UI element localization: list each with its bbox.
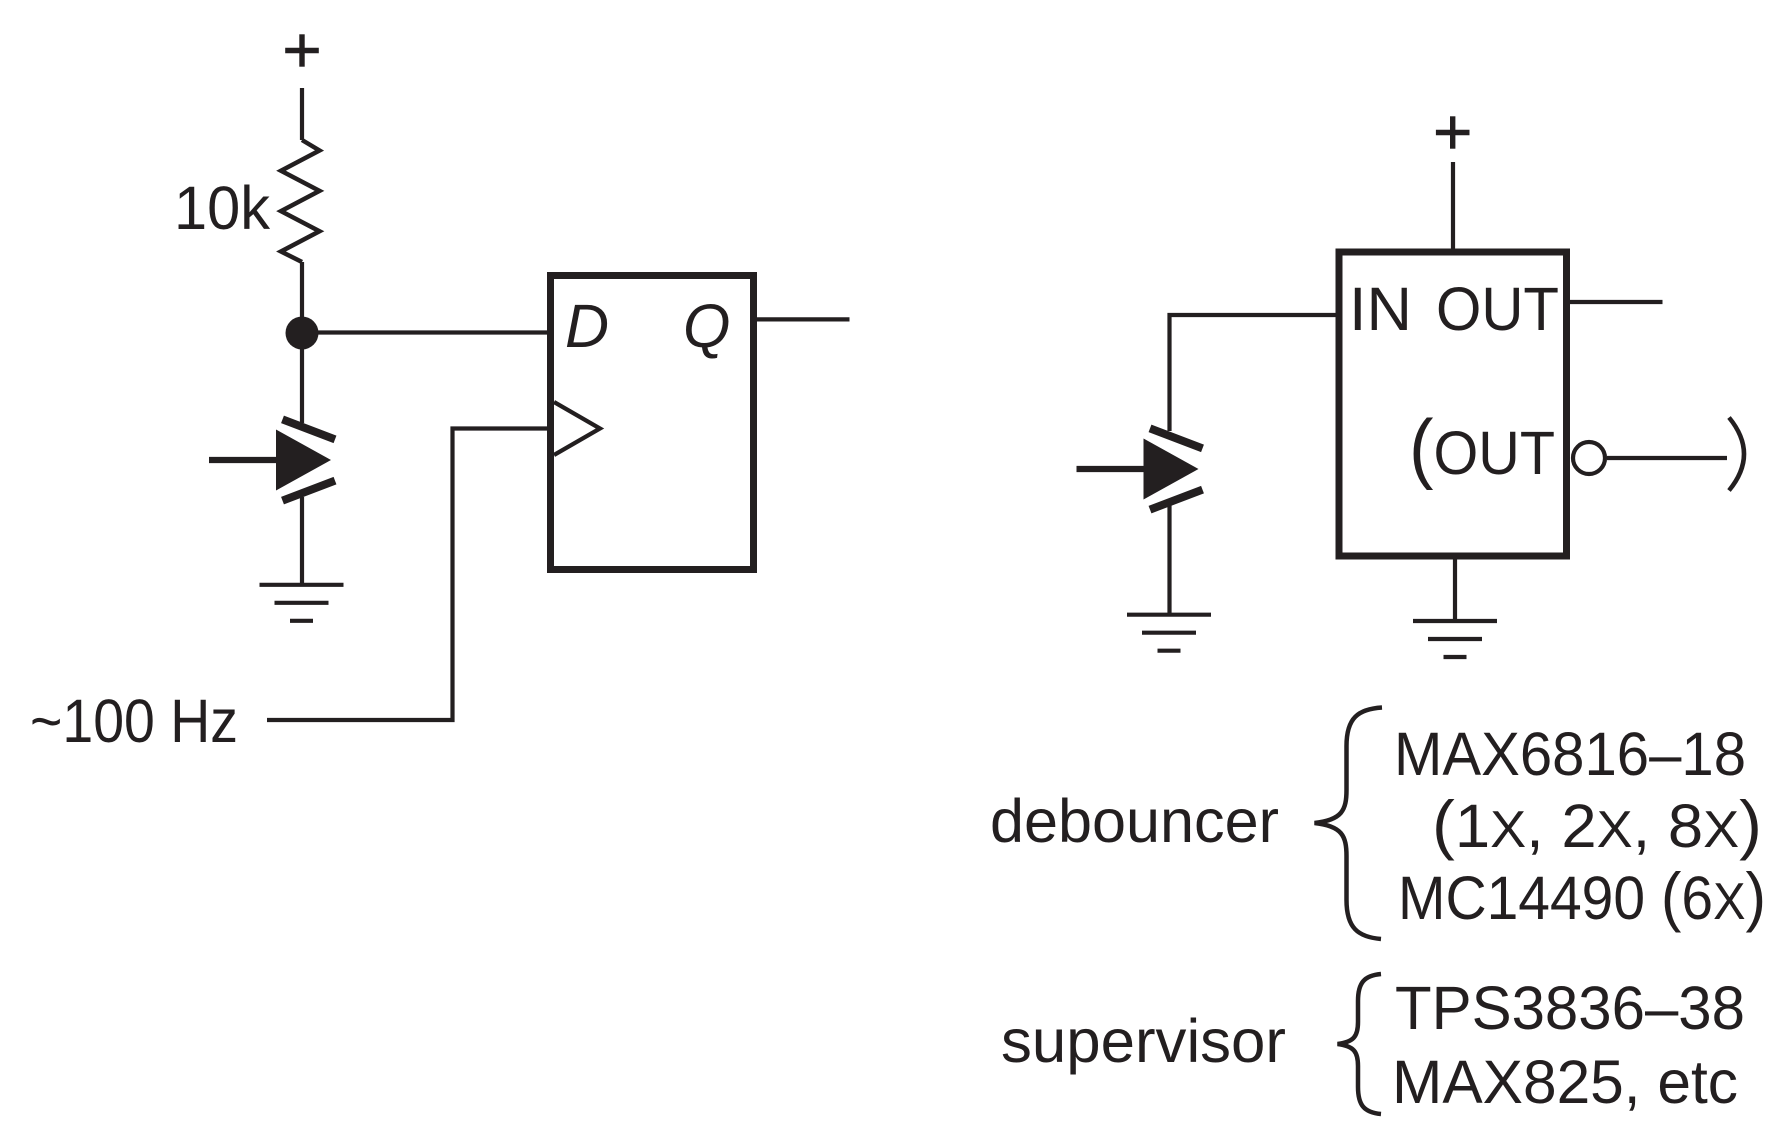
svg-text:TPS3836–38: TPS3836–38 <box>1395 974 1745 1042</box>
svg-text:MAX6816–18: MAX6816–18 <box>1394 720 1746 788</box>
svg-text:OUT: OUT <box>1436 275 1559 343</box>
svg-text:MAX825, etc: MAX825, etc <box>1392 1048 1738 1116</box>
svg-text:D: D <box>565 292 609 360</box>
svg-text:supervisor: supervisor <box>1001 1007 1286 1075</box>
svg-text:10k: 10k <box>174 174 270 242</box>
svg-text:~100 Hz: ~100 Hz <box>30 687 238 755</box>
svg-text:Q: Q <box>683 292 730 360</box>
svg-text:IN: IN <box>1349 275 1412 343</box>
svg-text:MC14490 (6X): MC14490 (6X) <box>1398 859 1766 933</box>
svg-text:debouncer: debouncer <box>990 787 1279 855</box>
